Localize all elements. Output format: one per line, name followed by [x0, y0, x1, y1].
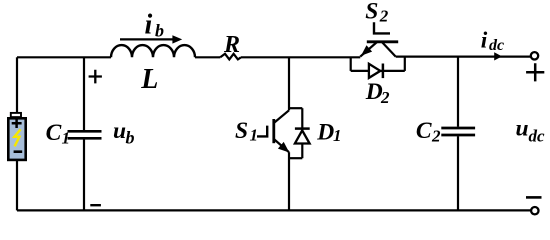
inductor L winding — [111, 45, 195, 57]
transistor S1 collector diagonal — [274, 110, 289, 123]
wire inductor to resistor — [195, 56, 220, 58]
battery BT1 minus mark — [14, 150, 23, 153]
wire resistor to S2 — [241, 56, 360, 58]
svg-text:2: 2 — [431, 127, 441, 146]
svg-text:S: S — [365, 0, 378, 25]
transistor S2 emitter arrowhead — [361, 45, 372, 56]
transistor S2 collector diagonal — [382, 42, 396, 57]
diode D2 right rise wire — [404, 57, 406, 71]
wire left vertical lower — [16, 161, 18, 211]
transistor S2 gate lead — [374, 22, 390, 33]
diode D1 bottom connector — [289, 157, 302, 159]
battery BT1 body — [8, 118, 25, 160]
svg-text:D: D — [316, 120, 334, 146]
resistor R zigzag — [220, 54, 241, 60]
diode D2 bottom right wire — [380, 70, 405, 72]
u_b plus mark — [89, 70, 102, 84]
diode D2 left drop wire — [350, 57, 352, 71]
svg-text:2: 2 — [379, 7, 389, 26]
svg-text:L: L — [140, 64, 158, 95]
wire bottom horizontal — [17, 209, 531, 211]
wire C2 upper vertical — [457, 57, 459, 127]
diode D2 triangle — [369, 64, 380, 78]
battery BT1 lightning bolt — [14, 129, 20, 146]
svg-text:dc: dc — [529, 126, 546, 145]
transistor S1 gate bar and lead — [257, 126, 267, 137]
transistor S1 emitter arrowhead — [278, 142, 289, 153]
svg-text:R: R — [223, 32, 240, 58]
svg-text:i: i — [481, 27, 488, 53]
svg-text:1: 1 — [62, 129, 71, 148]
current arrow i_b — [120, 38, 174, 40]
transistor S1 collector wire — [288, 57, 290, 110]
wire S2 to output terminal — [396, 55, 531, 57]
transistor S1 body bar — [272, 119, 275, 143]
transistor S1 emitter wire — [288, 152, 290, 210]
u_b minus mark — [90, 204, 101, 206]
output minus mark — [526, 196, 542, 199]
svg-text:u: u — [113, 118, 126, 144]
battery BT1 plus mark — [12, 119, 22, 128]
svg-text:dc: dc — [489, 37, 504, 54]
svg-text:b: b — [155, 20, 164, 40]
svg-text:C: C — [46, 120, 62, 146]
output terminal bottom circle — [531, 207, 538, 214]
svg-text:i: i — [145, 10, 153, 41]
battery BT1 tab — [11, 113, 21, 117]
svg-text:b: b — [126, 128, 135, 148]
svg-text:1: 1 — [333, 126, 342, 145]
capacitor C1 bottom plate — [68, 137, 102, 140]
diode D1 triangle — [295, 130, 310, 143]
svg-text:C: C — [416, 118, 432, 144]
transistor S2 body bar — [367, 40, 398, 43]
svg-text:u: u — [516, 116, 529, 142]
output plus mark — [526, 63, 544, 81]
wire C1 upper vertical — [83, 57, 85, 130]
capacitor C1 top plate — [68, 130, 102, 133]
wire C1 lower vertical — [83, 140, 85, 211]
diode D1 anode wire — [301, 144, 303, 159]
diode D1 cathode bar — [295, 127, 310, 130]
capacitor C2 top plate — [441, 127, 475, 130]
transistor S1 emitter diagonal — [274, 139, 289, 152]
wire top-left horizontal — [17, 56, 111, 58]
diode D1 top connector — [289, 107, 302, 109]
diode D1 cathode wire — [301, 108, 303, 130]
svg-text:S: S — [235, 118, 248, 144]
svg-text:2: 2 — [380, 88, 390, 107]
diode D2 cathode bar — [382, 64, 385, 79]
output terminal top circle — [531, 52, 538, 59]
svg-text:1: 1 — [250, 126, 259, 145]
capacitor C2 bottom plate — [441, 134, 475, 137]
current arrow i_dc head — [494, 52, 502, 60]
transistor S2 emitter diagonal — [360, 42, 377, 57]
diode D2 bottom left wire — [351, 70, 369, 72]
wire left vertical upper — [16, 57, 18, 112]
wire C2 lower vertical — [457, 136, 459, 210]
